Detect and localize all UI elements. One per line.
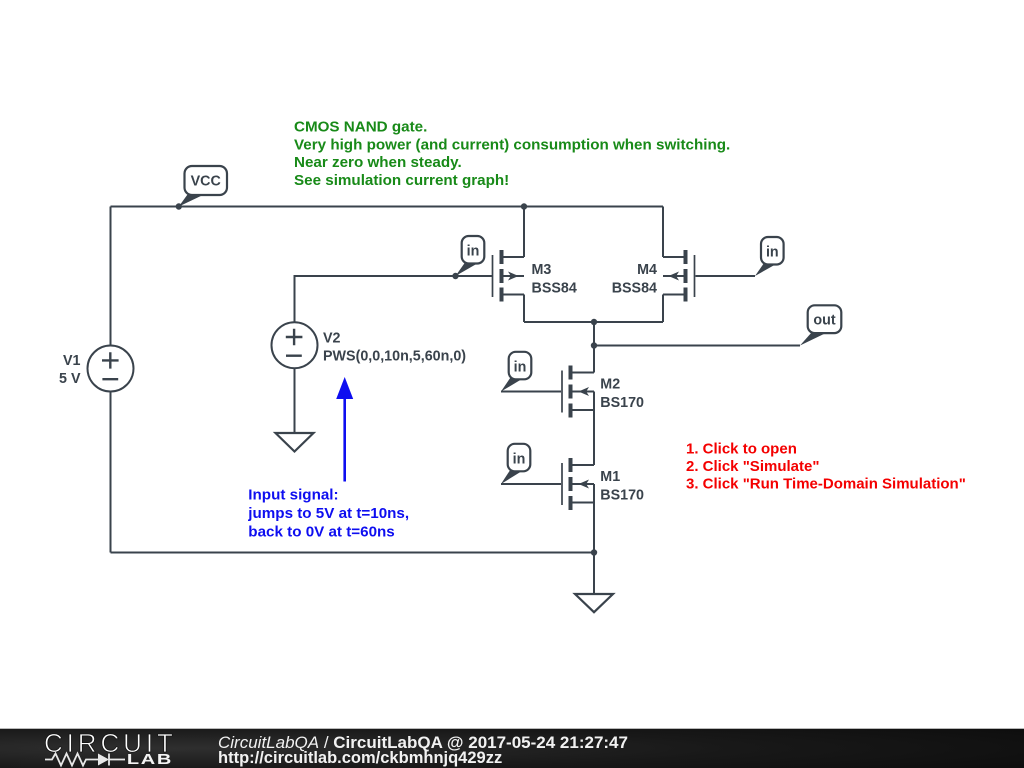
svg-text:V1: V1 [63, 353, 81, 369]
wire: M1 gate stub [501, 483, 561, 485]
svg-text:5 V: 5 V [59, 371, 81, 387]
svg-text:2. Click "Simulate": 2. Click "Simulate" [686, 458, 819, 475]
flag in (M4 gate) [755, 237, 784, 276]
wire: PMOS common source rail [524, 321, 663, 323]
voltage source V2 [272, 322, 318, 368]
note: CMOS NAND annotation (green) [294, 119, 730, 189]
svg-text:jumps to 5V at t=10ns,: jumps to 5V at t=10ns, [247, 505, 409, 522]
svg-text:M2: M2 [600, 377, 620, 393]
svg-text:http://circuitlab.com/ckbmhnjq: http://circuitlab.com/ckbmhnjq429zz [218, 749, 502, 767]
wire: VCC top rail [111, 206, 664, 208]
flag VCC [176, 166, 227, 210]
footer bar [0, 729, 1024, 768]
svg-text:1. Click to open: 1. Click to open [686, 440, 797, 457]
junction: out tap [591, 342, 597, 348]
ground: V2 [276, 433, 314, 452]
wire: out [594, 345, 800, 347]
label V2 PWS [323, 330, 466, 364]
wire: M4 gate stub [696, 275, 756, 277]
svg-text:3. Click "Run Time-Domain Simu: 3. Click "Run Time-Domain Simulation" [686, 475, 966, 492]
svg-text:Very high power (and current): Very high power (and current) consumptio… [294, 136, 730, 153]
wire: V2 bottom lead [294, 368, 296, 433]
svg-text:Input signal:: Input signal: [248, 486, 338, 503]
svg-text:BS170: BS170 [600, 488, 644, 504]
svg-text:BSS84: BSS84 [532, 280, 577, 296]
note: click instructions (red) [686, 440, 966, 492]
svg-text:in: in [766, 245, 779, 261]
svg-text:Near zero when steady.: Near zero when steady. [294, 154, 462, 171]
svg-text:in: in [514, 359, 527, 375]
svg-text:VCC: VCC [191, 174, 221, 190]
wire: V2 top lead + gate wire to M3 [295, 276, 493, 323]
svg-text:in: in [513, 451, 526, 467]
transistor M3 PMOS BSS84 [493, 207, 525, 323]
svg-text:back to 0V at t=60ns: back to 0V at t=60ns [248, 524, 394, 541]
junction: ground node [591, 549, 597, 555]
note: input signal (blue) [247, 486, 409, 540]
svg-text:V2: V2 [323, 330, 341, 346]
voltage source V1 [88, 346, 134, 392]
svg-text:PWS(0,0,10n,5,60n,0): PWS(0,0,10n,5,60n,0) [323, 349, 466, 365]
logo resistor-diode [45, 754, 125, 766]
annotation arrow (blue) [336, 377, 353, 482]
label M1 BS170 [600, 469, 644, 503]
label M2 BS170 [600, 377, 644, 411]
label M4 BSS84 [612, 262, 657, 296]
transistor M1 NMOS BS170 [562, 458, 594, 553]
wire: V1 bottom lead [110, 392, 112, 553]
svg-text:BS170: BS170 [600, 395, 644, 411]
svg-text:See simulation current graph!: See simulation current graph! [294, 172, 509, 189]
transistor M4 PMOS BSS84 (mirrored) [663, 207, 695, 323]
svg-text:in: in [467, 244, 480, 260]
svg-text:M4: M4 [637, 262, 657, 278]
wire: ground stub [593, 553, 595, 595]
label V1 5V [59, 353, 81, 387]
wire: V1 top lead [110, 207, 112, 346]
transistor M2 NMOS BS170 [562, 366, 594, 466]
flag in (M3 gate) [452, 236, 484, 279]
flag out [800, 305, 841, 345]
flag in (M1 gate) [501, 444, 530, 484]
wire: output node vertical [593, 322, 595, 373]
wire: bottom ground rail [111, 552, 595, 554]
svg-text:M3: M3 [532, 262, 552, 278]
svg-text:LAB: LAB [127, 751, 173, 768]
label M3 BSS84 [532, 262, 577, 296]
svg-text:CMOS NAND gate.: CMOS NAND gate. [294, 119, 427, 136]
svg-text:M1: M1 [600, 469, 620, 485]
junction: top rail / M3 drain [521, 203, 527, 209]
wire: M2 gate stub [501, 391, 561, 393]
ground: main [575, 594, 613, 612]
svg-text:BSS84: BSS84 [612, 280, 657, 296]
svg-text:out: out [813, 313, 835, 329]
junction: output node top [591, 319, 597, 325]
flag in (M2 gate) [501, 352, 531, 392]
